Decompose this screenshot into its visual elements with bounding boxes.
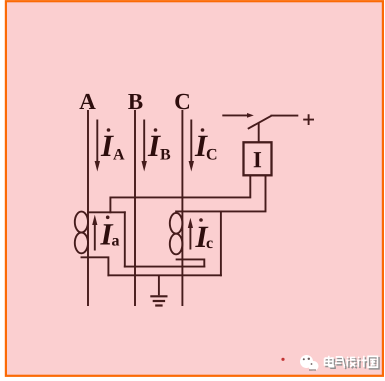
watermark text 电气设计圈	[325, 356, 378, 367]
wire TA-a secondary top	[88, 211, 125, 213]
wire to plus terminal	[271, 115, 299, 117]
watermark text shadow	[326, 357, 379, 368]
label current Ic	[199, 218, 203, 222]
plus terminal	[303, 114, 314, 125]
current arrow IA	[96, 120, 98, 164]
label current IA	[107, 128, 111, 132]
wire TA-c winding bottom	[177, 259, 205, 266]
node label phase C	[175, 94, 189, 109]
wire branch to relay left	[110, 176, 250, 213]
wire phase line B	[134, 111, 136, 305]
node label phase B	[128, 94, 142, 109]
watermark red dot	[281, 358, 284, 361]
label current Ia	[106, 216, 110, 220]
wire relay top stub	[258, 123, 260, 142]
current arrow IB	[143, 120, 145, 164]
current arrow IC	[190, 120, 192, 164]
wire TA-a loop right side	[124, 212, 126, 266]
relay U1 box	[244, 142, 272, 175]
wire upper bus	[125, 266, 205, 268]
ground	[150, 275, 167, 305]
wire phase line A	[87, 111, 89, 305]
node label phase A	[79, 94, 95, 109]
label current IB	[154, 128, 158, 132]
secondary current arrow Ia	[94, 223, 96, 251]
wire TA-c loop right side	[220, 211, 222, 275]
wire lower bus	[108, 274, 220, 276]
switch blade	[248, 116, 271, 129]
wire TA-a winding bottom	[82, 257, 109, 275]
relay U1 label I	[254, 152, 261, 167]
watermark logo	[300, 355, 319, 371]
transformer TA-a winding	[75, 212, 88, 233]
secondary current arrow Ic	[189, 226, 191, 250]
switch actuation arrow	[222, 114, 248, 116]
wire phase line C	[181, 111, 183, 305]
transformer TA-c winding	[170, 213, 183, 234]
wire TA-c secondary top to relay right	[176, 176, 265, 212]
label current IC	[201, 128, 205, 132]
